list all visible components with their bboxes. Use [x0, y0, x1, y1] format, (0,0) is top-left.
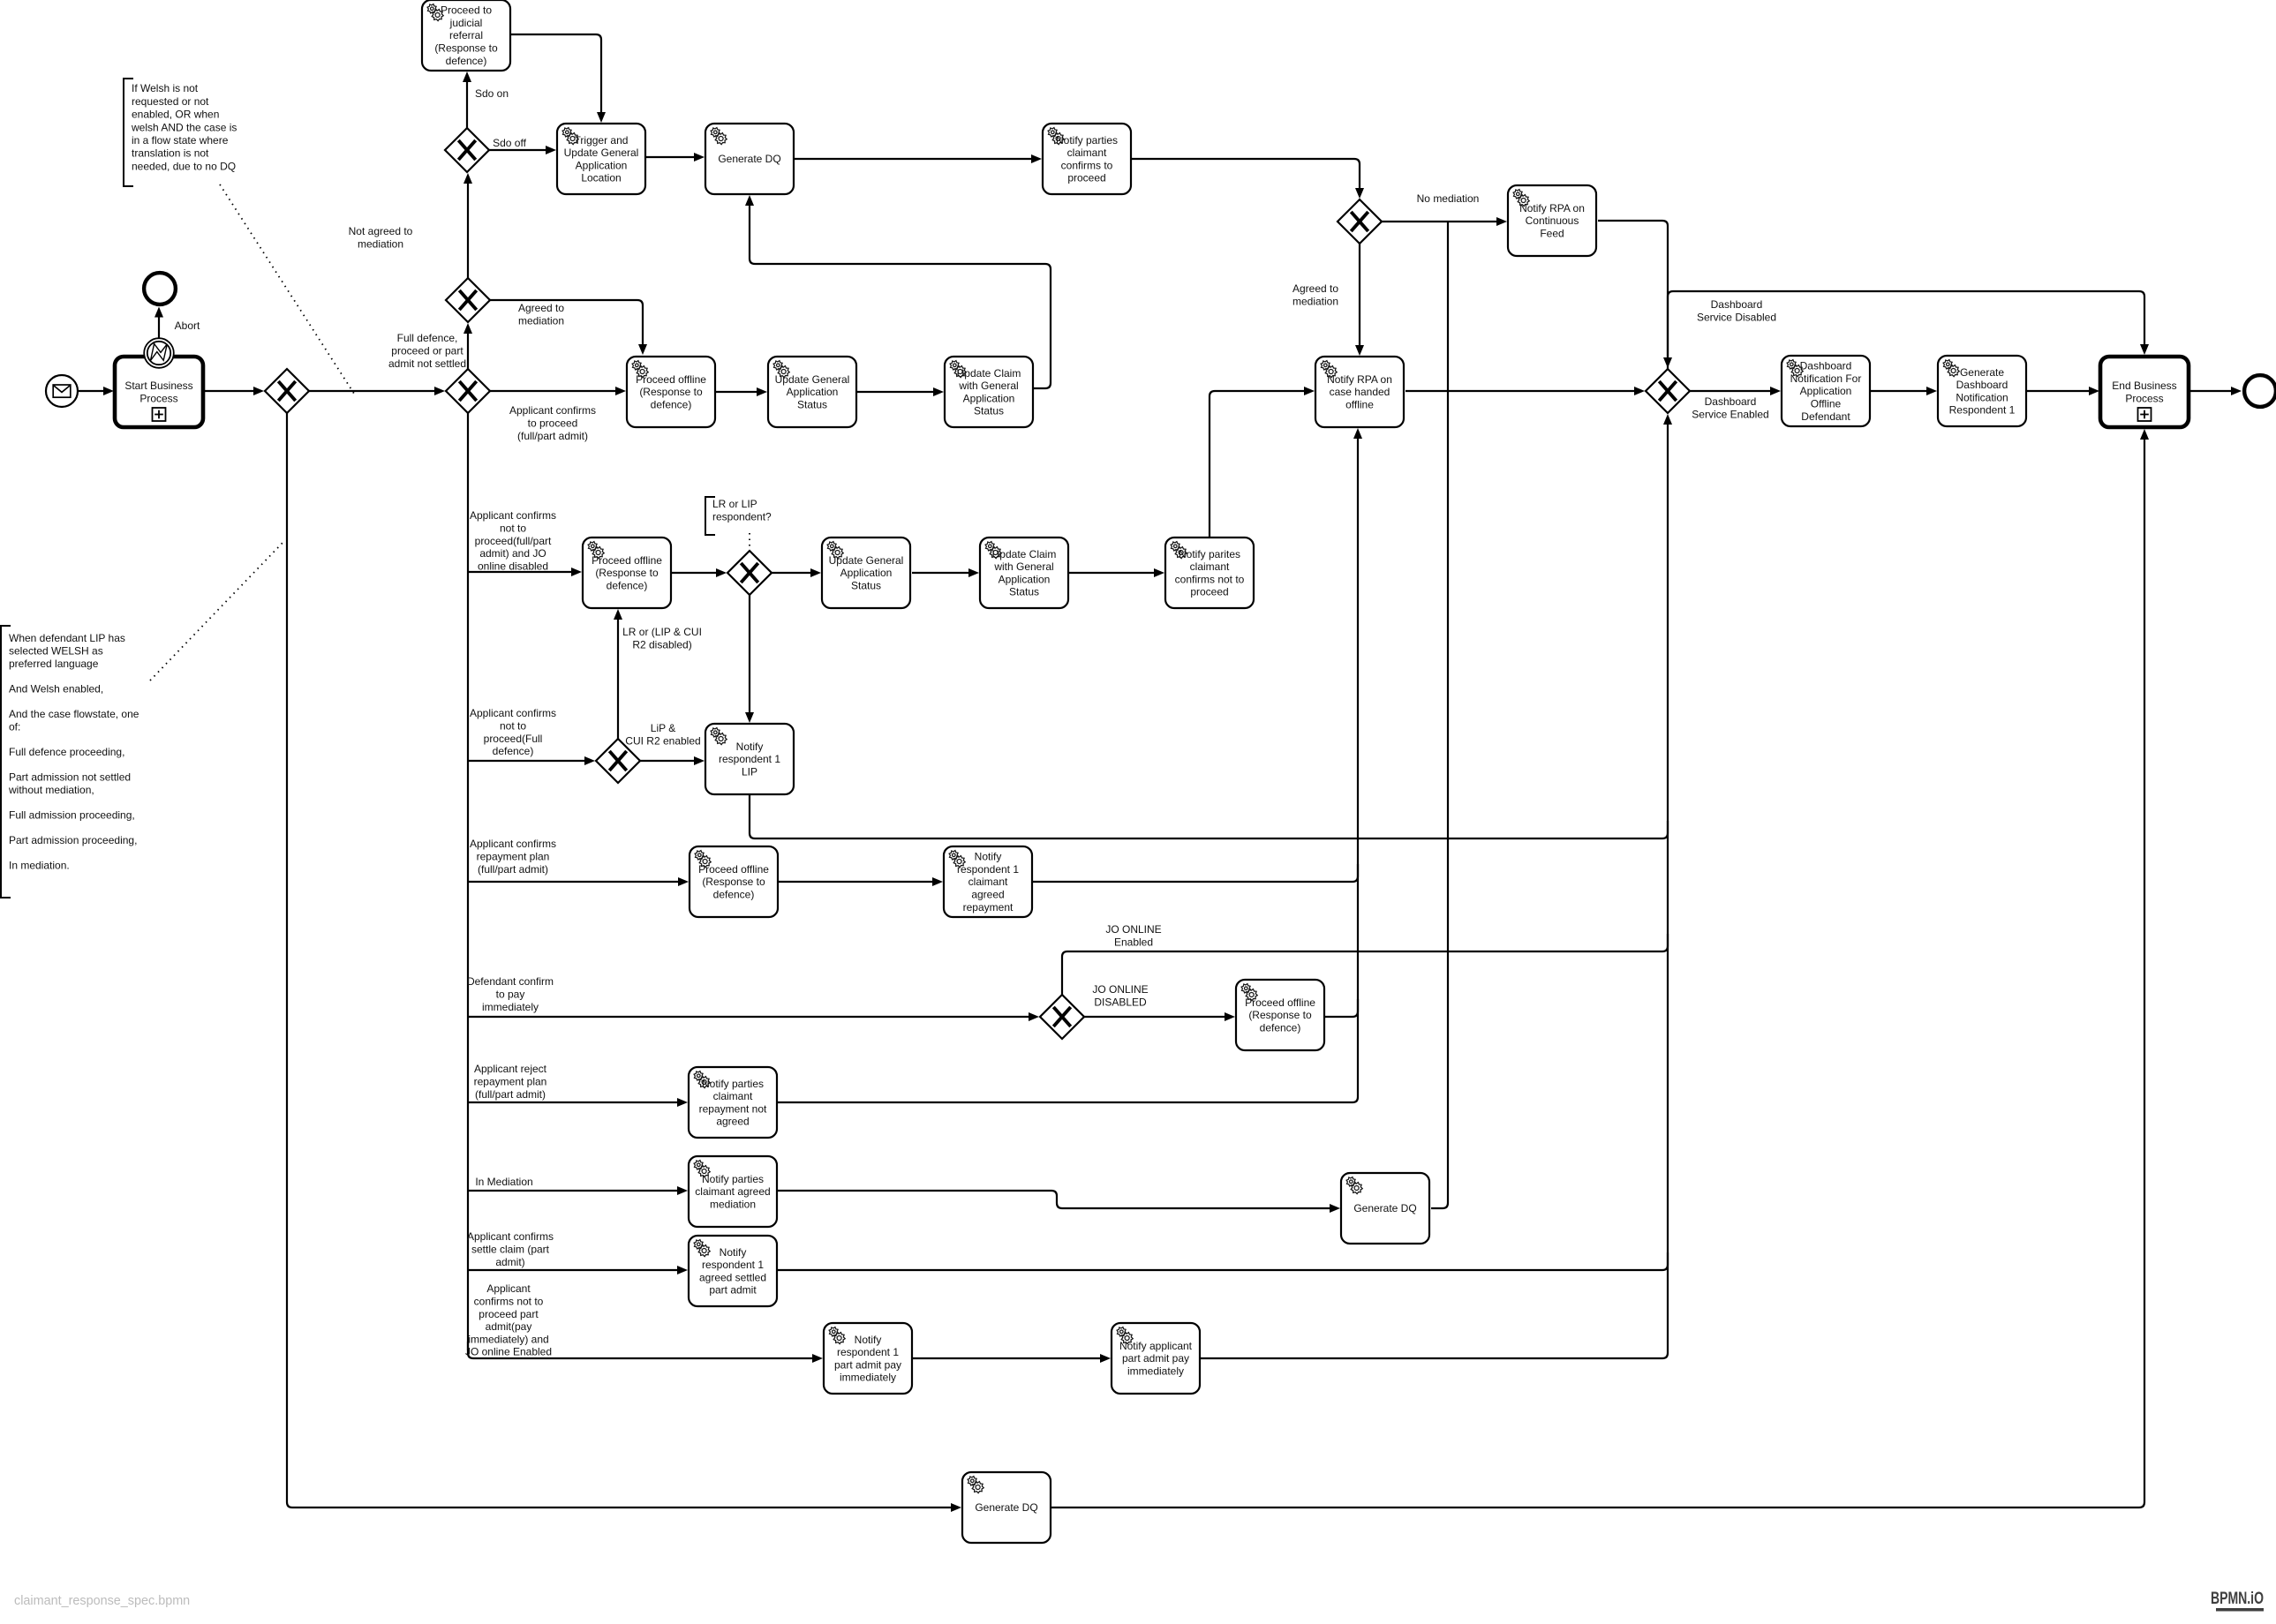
svg-text:JO ONLINEDISABLED: JO ONLINEDISABLED [1092, 983, 1148, 1008]
svg-text:Applicant confirmsnot toprocee: Applicant confirmsnot toproceed(full/par… [470, 509, 556, 572]
svg-text:No mediation: No mediation [1417, 192, 1480, 205]
svg-text:Full defence,proceed or partad: Full defence,proceed or partadmit not se… [388, 332, 466, 370]
svg-text:Generate DQ: Generate DQ [718, 153, 780, 165]
svg-text:BPMN.iO: BPMN.iO [2211, 1589, 2264, 1608]
svg-text:Sdo off: Sdo off [493, 137, 526, 149]
svg-text:LR or (LIP & CUIR2 disabled): LR or (LIP & CUIR2 disabled) [622, 626, 702, 650]
svg-text:Applicant rejectrepayment plan: Applicant rejectrepayment plan(full/part… [474, 1063, 547, 1101]
svg-text:Agreed tomediation: Agreed tomediation [1292, 282, 1338, 307]
svg-text:Agreed tomediation: Agreed tomediation [518, 302, 564, 327]
svg-text:Applicant confirmsrepayment pl: Applicant confirmsrepayment plan(full/pa… [470, 838, 556, 876]
svg-text:Generate DQ: Generate DQ [1353, 1202, 1416, 1214]
svg-text:Notify applicantpart admit pay: Notify applicantpart admit payimmediatel… [1119, 1340, 1193, 1378]
svg-text:Sdo on: Sdo on [475, 87, 509, 100]
svg-text:Generate DQ: Generate DQ [975, 1501, 1037, 1514]
svg-text:claimant_response_spec.bpmn: claimant_response_spec.bpmn [14, 1594, 190, 1608]
svg-text:Not agreed tomediation: Not agreed tomediation [349, 225, 413, 250]
svg-text:In Mediation: In Mediation [475, 1176, 532, 1188]
svg-text:Abort: Abort [175, 320, 200, 332]
